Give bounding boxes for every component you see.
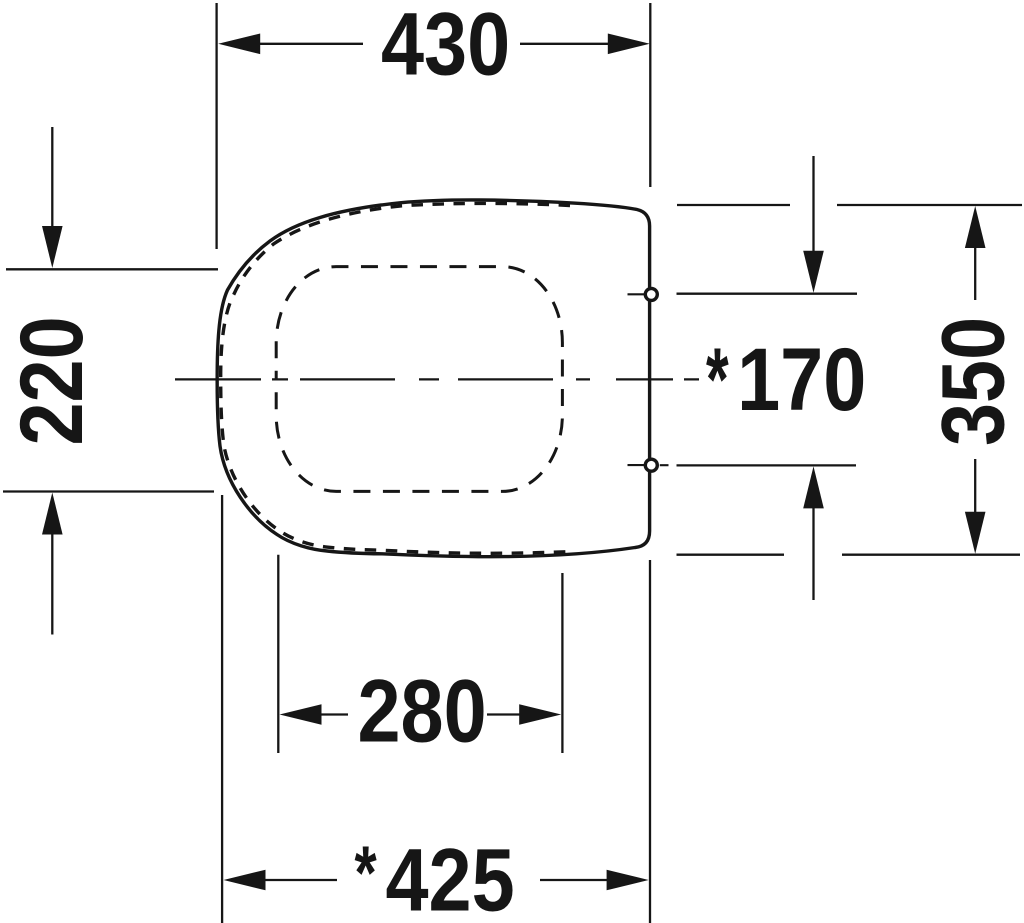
dim 350: lower tail line [974,459,976,517]
svg-text:170: 170 [737,329,866,429]
dim 350: top extension line segment b [837,204,1022,206]
dim *425: left dimension line segment [262,879,337,881]
svg-text:280: 280 [358,660,487,760]
seat hidden lower rim (dashed contour hugging the left curve) [221,203,574,553]
dim 430: right extension line [649,3,651,187]
lower hinge axis line (left tick) [628,464,645,466]
dim 280: right arrow [519,704,561,725]
lower hinge axis line (right stub) [660,464,669,466]
center line (horizontal dash-dot axis) [175,378,699,380]
dim 220: upper tail line [51,127,53,230]
dim 280: left arrow [280,704,322,725]
lower hinge axis line (right reference to *170) [677,464,857,466]
svg-text:350: 350 [922,317,1022,446]
dim 350: bottom extension line segment a [677,554,785,556]
svg-text:*: * [706,330,729,429]
dim 350: bottom extension line segment b [842,554,1020,556]
dim 280: left dimension line segment [317,713,348,715]
dim *170: up arrow [803,466,824,508]
svg-text:425: 425 [386,829,515,923]
dim *170: lower tail line [812,504,814,600]
seat opening (inner dashed ring) [276,267,562,492]
dim 430: left extension line [215,3,217,249]
dim *425: right dimension line segment [540,879,611,881]
dim 280: right extension line [561,573,563,753]
dim *425: left arrow [224,870,266,891]
dim *425: right extension line [649,560,651,923]
dim 280: left extension line [277,555,279,753]
upper hinge axis line (right reference to *170) [677,293,858,295]
dim 430: right dimension line segment [520,43,612,45]
dim 350: down arrow [965,512,986,554]
svg-text:*: * [355,831,378,916]
dim 430: left arrow [218,34,260,55]
svg-text:430: 430 [381,0,510,94]
seat outline (outer solid contour) [217,200,649,557]
dim 350: upper tail line [974,243,976,300]
dim 220: down arrow [42,226,63,268]
svg-text:220: 220 [1,316,101,445]
dim 220: upper reference line [6,268,218,270]
upper hinge axis line (left tick) [628,293,645,295]
dim 350: up arrow [965,206,986,248]
dim 430: left dimension line segment [257,43,363,45]
lower hinge pin circle [645,459,657,471]
dim *425: right arrow [607,870,649,891]
dim *170: upper tail line [812,156,814,256]
dim *170: down arrow [803,251,824,293]
dim *425: left extension line [221,495,223,923]
dim 220: lower tail line [51,532,53,635]
dim 430: right arrow [608,34,650,55]
dim 220: up arrow [42,493,63,535]
dim 350: top extension line segment a [677,204,790,206]
dim 220: lower reference line [3,490,214,492]
dim 280: right dimension line segment [487,713,525,715]
upper hinge pin circle [645,288,657,300]
